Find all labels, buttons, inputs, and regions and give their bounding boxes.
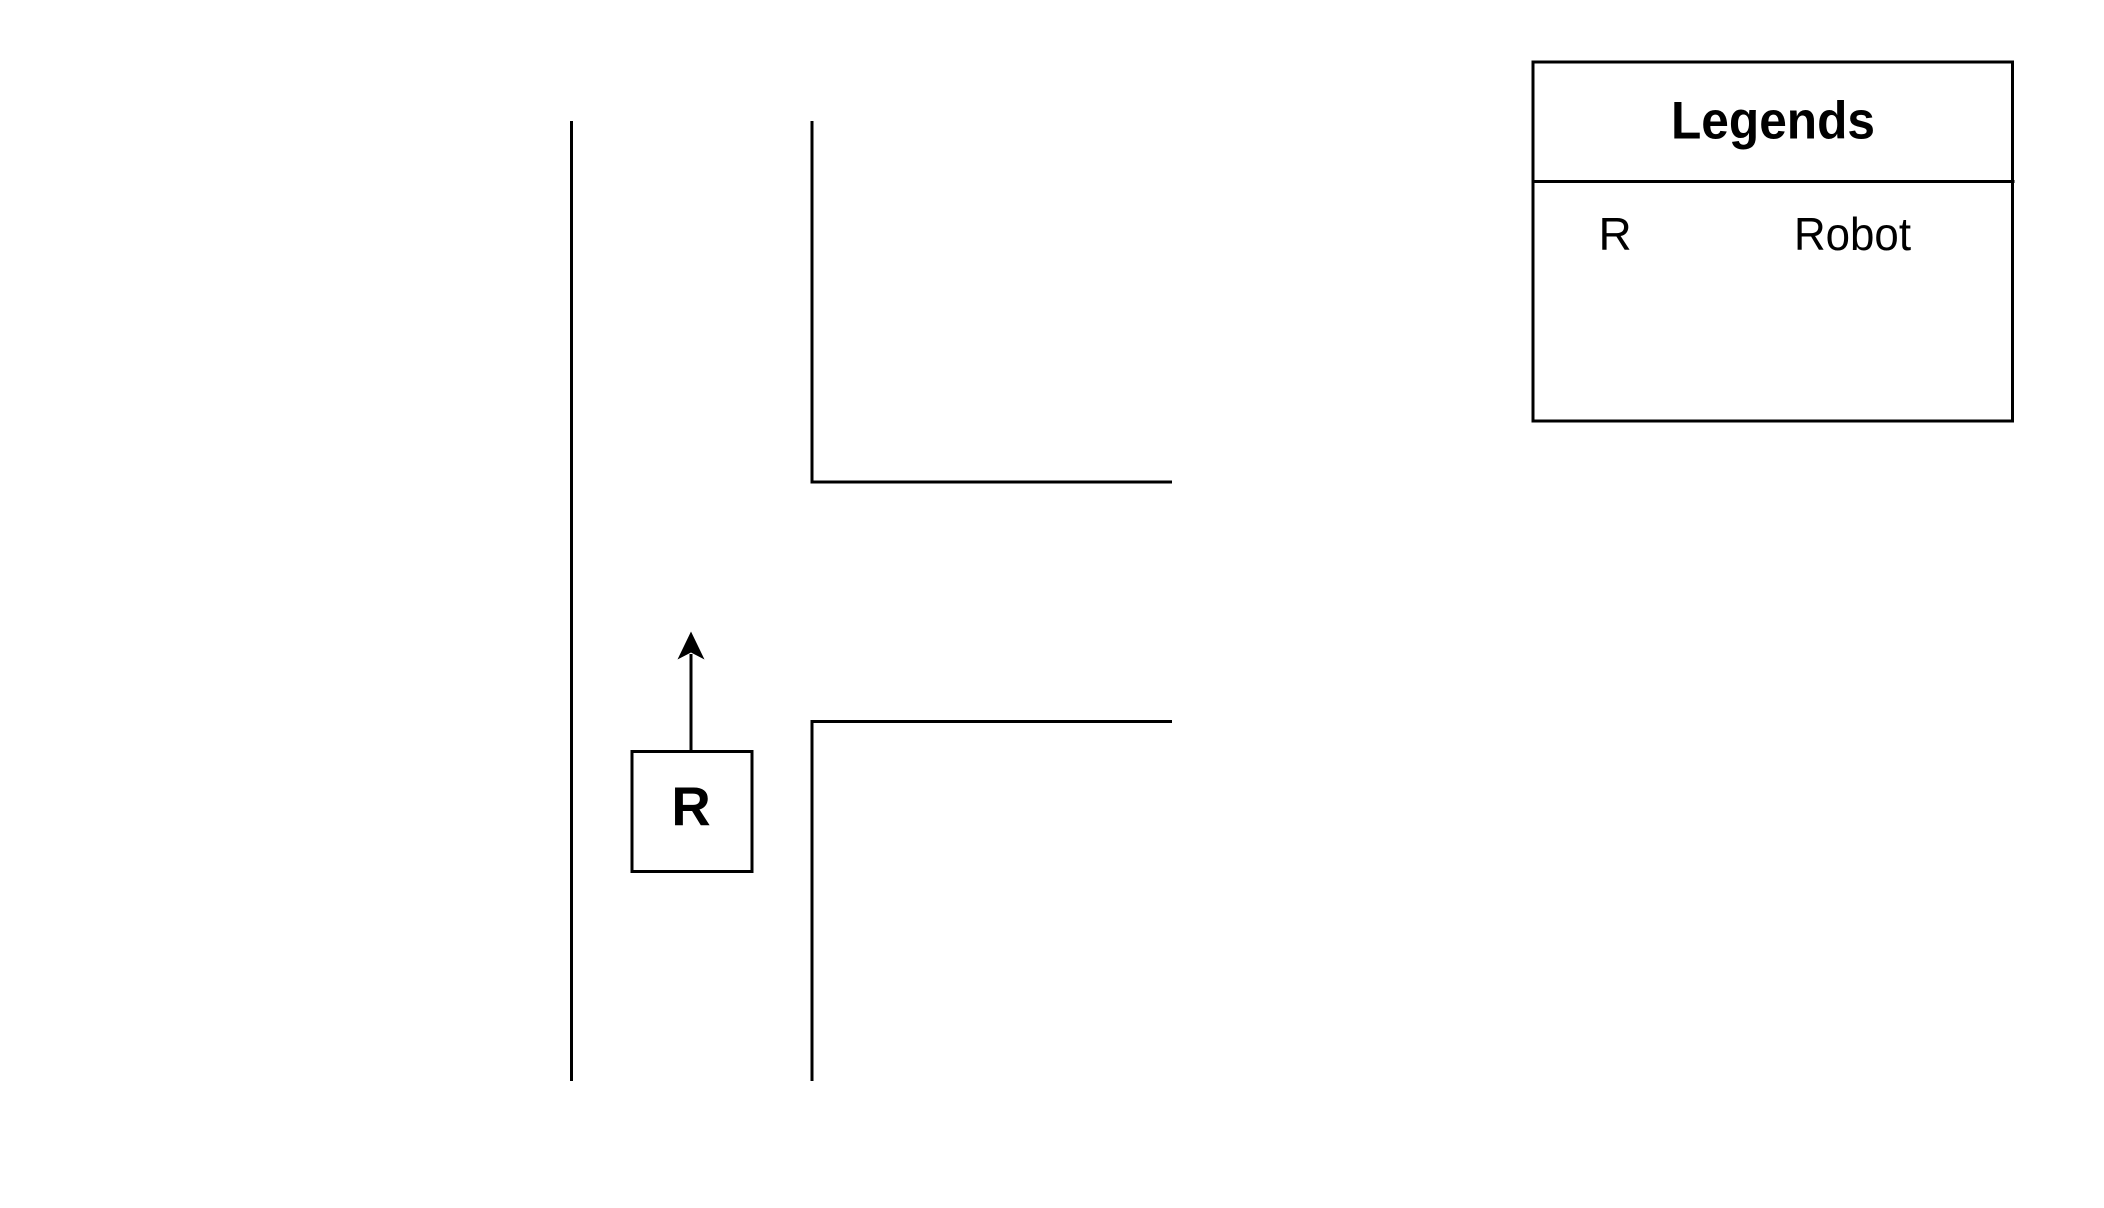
legend box: [1533, 62, 2013, 421]
svg-text:Robot: Robot: [1794, 208, 1911, 260]
svg-text:Legends: Legends: [1671, 92, 1875, 151]
svg-text:R: R: [1599, 208, 1632, 260]
wall lower-right (L corner: horizontal then vertical): [812, 722, 1172, 1082]
heading arrow shaft: [690, 654, 693, 751]
wall upper-right (L corner: vertical then horizontal): [812, 121, 1172, 482]
legend divider: [1532, 180, 2015, 183]
wall left (vertical corridor wall): [570, 121, 573, 1081]
svg-text:R: R: [671, 777, 710, 838]
robot R (square body): [632, 752, 752, 872]
arrowhead: [678, 632, 705, 660]
